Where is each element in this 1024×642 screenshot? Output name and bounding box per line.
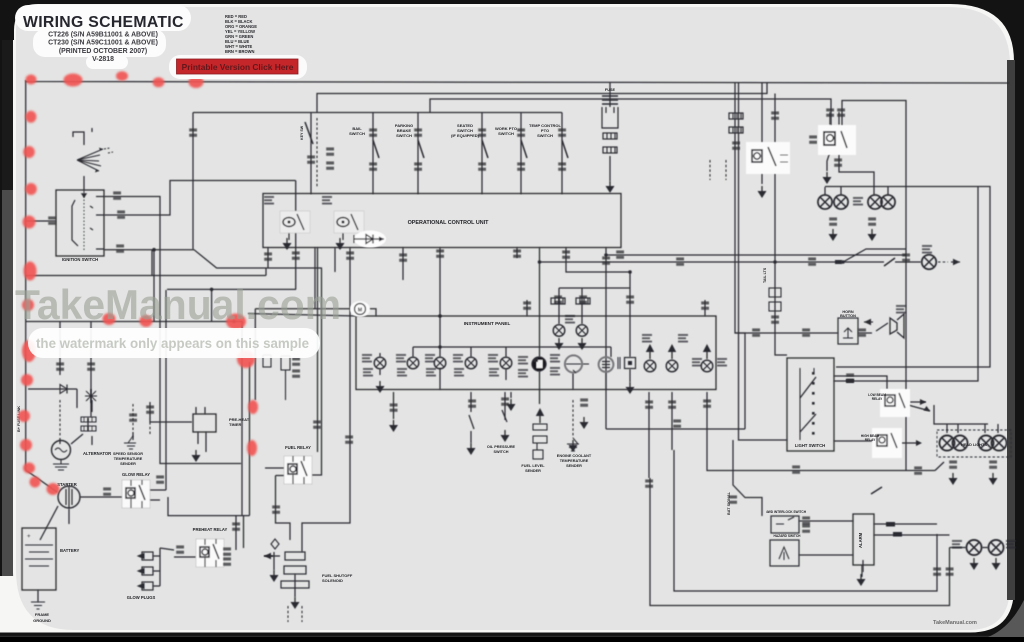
svg-text:SENDER: SENDER xyxy=(566,464,582,468)
svg-text:TEMPERATURE: TEMPERATURE xyxy=(560,459,589,463)
svg-text:BAT SIGNAL: BAT SIGNAL xyxy=(727,491,731,515)
svg-text:OIL PRESSURE: OIL PRESSURE xyxy=(487,445,516,449)
svg-text:SWITCH: SWITCH xyxy=(349,131,365,136)
svg-text:FUSE: FUSE xyxy=(605,88,616,92)
svg-text:TIMER: TIMER xyxy=(229,422,242,427)
svg-text:IGNITION SWITCH: IGNITION SWITCH xyxy=(62,257,98,262)
svg-text:CT226 (S/N A59B11001 & ABOVE): CT226 (S/N A59B11001 & ABOVE) xyxy=(48,32,158,39)
svg-text:ALARM: ALARM xyxy=(858,532,863,548)
svg-text:SWITCH: SWITCH xyxy=(494,450,509,454)
svg-text:RELAY: RELAY xyxy=(872,397,883,401)
svg-text:BUTTON: BUTTON xyxy=(840,314,856,318)
svg-text:RELAY: RELAY xyxy=(865,438,876,442)
svg-text:SOLENOID: SOLENOID xyxy=(322,578,343,583)
svg-text:FUEL LEVEL: FUEL LEVEL xyxy=(521,464,545,468)
svg-text:BATTERY: BATTERY xyxy=(60,548,80,553)
svg-text:ALTERNATOR: ALTERNATOR xyxy=(83,451,111,456)
svg-text:OPERATIONAL CONTROL UNIT: OPERATIONAL CONTROL UNIT xyxy=(408,220,490,226)
svg-text:TakeManual.com: TakeManual.com xyxy=(15,281,341,328)
svg-text:SWITCH: SWITCH xyxy=(498,131,514,136)
svg-text:V-2818: V-2818 xyxy=(92,56,114,63)
svg-text:GLOW PLUGS: GLOW PLUGS xyxy=(127,595,156,600)
svg-text:M: M xyxy=(358,308,362,314)
svg-text:SPEED SENSOR: SPEED SENSOR xyxy=(113,452,143,456)
svg-text:BRN = BROWN: BRN = BROWN xyxy=(225,49,254,54)
svg-text:TakeManual.com: TakeManual.com xyxy=(933,620,977,626)
svg-text:SWITCH: SWITCH xyxy=(537,133,553,138)
svg-text:WIRING SCHEMATIC: WIRING SCHEMATIC xyxy=(23,14,184,31)
svg-text:SENDER: SENDER xyxy=(525,469,541,473)
svg-text:FUEL RELAY: FUEL RELAY xyxy=(285,445,311,450)
svg-text:PREHEAT RELAY: PREHEAT RELAY xyxy=(193,527,228,532)
svg-text:INSTRUMENT PANEL: INSTRUMENT PANEL xyxy=(464,321,511,326)
svg-text:SENDER: SENDER xyxy=(120,462,136,466)
svg-text:ENGINE COOLANT: ENGINE COOLANT xyxy=(557,454,592,458)
svg-text:FRAME: FRAME xyxy=(35,612,50,617)
svg-text:(PRINTED OCTOBER 2007): (PRINTED OCTOBER 2007) xyxy=(59,48,147,55)
svg-text:GLOW RELAY: GLOW RELAY xyxy=(122,472,150,477)
svg-text:SWITCH: SWITCH xyxy=(396,133,412,138)
svg-text:HEAD LIGHTS: HEAD LIGHTS xyxy=(961,443,987,447)
svg-text:TAIL LTS: TAIL LTS xyxy=(763,267,767,283)
svg-text:HAZARD SWITCH: HAZARD SWITCH xyxy=(774,534,802,538)
svg-text:the watermark only appears on: the watermark only appears on this sampl… xyxy=(36,335,309,351)
svg-text:TEMPERATURE: TEMPERATURE xyxy=(114,457,143,461)
svg-text:Printable Version Click Here: Printable Version Click Here xyxy=(182,62,294,72)
svg-text:+: + xyxy=(27,534,31,540)
svg-text:CT230 (S/N A59C11001 & ABOVE): CT230 (S/N A59C11001 & ABOVE) xyxy=(48,40,158,47)
svg-text:(IF EQUIPPED): (IF EQUIPPED) xyxy=(451,133,480,138)
svg-text:STARTER: STARTER xyxy=(57,482,76,487)
svg-text:4WD INTERLOCK SWITCH: 4WD INTERLOCK SWITCH xyxy=(766,510,807,514)
svg-text:KEY SW: KEY SW xyxy=(300,125,304,140)
svg-text:LIGHT SWITCH: LIGHT SWITCH xyxy=(795,443,825,448)
svg-text:GROUND: GROUND xyxy=(33,618,51,623)
